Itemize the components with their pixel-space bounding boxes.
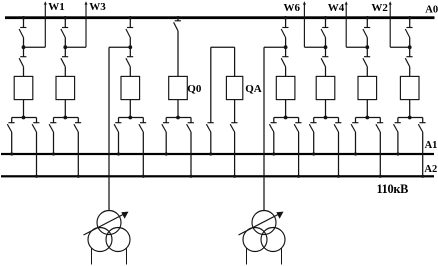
junction on busbar A1, bay 5 [272, 152, 275, 155]
wire bay 8 node to line arrow [390, 46, 410, 48]
wire QA left riser [210, 47, 212, 123]
circuit breaker Q1, bay 1 [14, 76, 33, 99]
disconnector QS14 to busbar A2, bay 1 [32, 123, 39, 132]
wire bay 2 node to line arrow [65, 46, 86, 48]
node on busbar A0, bay 6 [324, 16, 327, 19]
wire bay 8 to busbar A1 [397, 132, 399, 154]
node bay 3 tap junction [128, 45, 132, 49]
disconnector QS84 to busbar A2, bay 8 [418, 123, 425, 132]
wire bay 7 breaker to selector node [366, 100, 368, 118]
node bay 2 tap junction [63, 45, 67, 49]
wire bay 6 to busbar A1 [313, 132, 315, 154]
node bay 2 bus-selector junction [63, 116, 67, 120]
node bay 8 bus-selector junction [408, 116, 412, 120]
wire bay 6 right selector stub [338, 118, 340, 123]
node on busbar A0, bay 8 [408, 16, 411, 19]
junction QA on busbar A1 [209, 152, 212, 155]
wire bay 5 right selector stub [298, 118, 300, 123]
wire QA left to busbar A1 [210, 132, 212, 154]
node bay 6 bus-selector junction [324, 116, 328, 120]
svg-text:A1: A1 [425, 140, 438, 151]
wire bay 2 to busbar A2 [77, 132, 79, 176]
junction on busbar A1, bay 7 [354, 152, 357, 155]
wire QA top horizontal link [211, 46, 235, 48]
wire bay 7 to busbar A2 [379, 132, 381, 176]
junction on busbar A1, bay 6 [312, 152, 315, 155]
junction on busbar A2, bay 5 [297, 175, 300, 178]
wire bay 4 breaker to selector node [177, 100, 179, 118]
node on busbar A0, bay 1 [22, 16, 25, 19]
disconnector QS83 to busbar A1, bay 8 [394, 123, 401, 132]
junction on busbar A2, bay 3 [142, 175, 145, 178]
wire bay 2 left selector stub [53, 118, 55, 123]
wire bay 1 node to second disconnector [23, 47, 25, 57]
node bay 7 bus-selector junction [365, 116, 369, 120]
wire bay 1 bus-selector bar [12, 117, 37, 119]
wire bay 4 bus-selector bar [166, 117, 191, 119]
junction on busbar A2, bay 8 [421, 175, 424, 178]
junction on busbar A2, bay 1 [35, 175, 38, 178]
disconnector QS22, bay 2 [61, 57, 68, 67]
wire bay 7 bus-selector bar [356, 117, 381, 119]
wire bay 7 left selector stub [355, 118, 357, 123]
wire bay 1 to busbar A1 [11, 132, 13, 154]
disconnector QS64 to busbar A2, bay 6 [334, 123, 341, 132]
wire bay 3 bus drop [129, 19, 131, 27]
svg-text:A2: A2 [424, 164, 437, 175]
node bay 6 tap junction [324, 45, 328, 49]
junction on busbar A1, bay 4 [165, 152, 168, 155]
disconnector QS23 to busbar A1, bay 2 [49, 123, 56, 132]
wire bay 2 to busbar A1 [53, 132, 55, 154]
transformer T2 secondary lead left [246, 248, 248, 265]
disconnector QA right (busbar A2 side) [230, 123, 237, 132]
wire bay 3 below first disconnector [129, 38, 131, 48]
disconnector QS13 to busbar A1, bay 1 [7, 123, 14, 132]
wire bay 1 right selector stub [36, 118, 38, 123]
junction on busbar A1, bay 8 [396, 152, 399, 155]
wire bay 3 breaker to selector node [129, 100, 131, 118]
wire bay 1 disconnector to breaker [23, 67, 25, 77]
wire bay 1 breaker to selector node [23, 100, 25, 118]
wire bay 6 left selector stub [313, 118, 315, 123]
circuit breaker Q3, bay 3 [121, 76, 140, 99]
disconnector QS71 (busbar A0 side), bay 7 [363, 28, 370, 38]
wire bay 5 bus drop [285, 19, 287, 27]
transformer T1 secondary lead right [126, 248, 128, 265]
disconnector QS24 to busbar A2, bay 2 [74, 123, 81, 132]
disconnector QS62, bay 6 [321, 57, 328, 67]
wire bay 2 bus-selector bar [54, 117, 79, 119]
disconnector QS21 (busbar A0 side), bay 2 [61, 28, 68, 38]
wire bay 5 left selector stub [273, 118, 275, 123]
outgoing line arrow W4 [345, 1, 348, 47]
wire bay 8 bus-selector bar [398, 117, 423, 119]
wire bay 7 node to line arrow [346, 46, 367, 48]
wire bay 7 below first disconnector [366, 38, 368, 48]
svg-text:W1: W1 [48, 1, 65, 13]
svg-text:W3: W3 [89, 1, 106, 13]
wire bay 3 right selector stub [142, 118, 144, 123]
wire bay 6 below first disconnector [325, 38, 327, 48]
disconnector QS51 (busbar A0 side), bay 5 [281, 28, 288, 38]
wire bay 8 right selector stub [422, 118, 424, 123]
wire bay 3 node to transformer feeder [109, 46, 130, 48]
circuit breaker QA (bus coupler) [226, 76, 242, 99]
disconnector QS33 to busbar A1, bay 3 [114, 123, 121, 132]
wire bay 5 node to transformer feeder [264, 46, 286, 48]
wire bay 3 to busbar A2 [142, 132, 144, 176]
wire bay 3 bus-selector bar [119, 117, 144, 119]
disconnector QS74 to busbar A2, bay 7 [376, 123, 383, 132]
wire bay 2 below first disconnector [64, 38, 66, 48]
wire bay 7 to busbar A1 [355, 132, 357, 154]
wire bay 8 below first disconnector [409, 38, 411, 48]
node bay 7 tap junction [365, 45, 369, 49]
disconnector QS32, bay 3 [126, 57, 133, 67]
wire bay 1 node to line arrow [24, 46, 46, 48]
disconnector QS43 to busbar A1, bay 4 [162, 123, 169, 132]
wire QA breaker to disconnector [234, 100, 236, 123]
wire bay 3 disconnector to breaker [129, 67, 131, 77]
busbar A1 [1, 153, 434, 155]
junction on busbar A2, bay 2 [77, 175, 80, 178]
node bay 5 bus-selector junction [284, 116, 288, 120]
wire bay 8 to busbar A2 [422, 132, 424, 176]
disconnector QS63 to busbar A1, bay 6 [309, 123, 316, 132]
junction on busbar A1, bay 2 [52, 152, 55, 155]
disconnector QS31 (busbar A0 side), bay 3 [126, 28, 133, 38]
wire bay 1 to busbar A2 [36, 132, 38, 176]
wire bay 4 to busbar A1 [165, 132, 167, 154]
node on busbar A0, bay 4 [176, 16, 179, 19]
wire bay 4 left selector stub [165, 118, 167, 123]
svg-text:A0: A0 [425, 5, 438, 16]
disconnector QS44 to busbar A2, bay 4 [187, 123, 194, 132]
wire bay 6 node to line arrow [304, 46, 325, 48]
junction on busbar A2, bay 6 [337, 175, 340, 178]
wire bay 8 breaker to selector node [409, 100, 411, 118]
wire bay 7 right selector stub [379, 118, 381, 123]
node on busbar A0, bay 5 [284, 16, 287, 19]
wire bay 8 left selector stub [397, 118, 399, 123]
disconnector QS53 to busbar A1, bay 5 [269, 123, 276, 132]
node bay 1 bus-selector junction [22, 116, 26, 120]
outgoing line arrow W3 [85, 1, 88, 47]
wire bay 7 bus drop [366, 19, 368, 27]
wire bay 5 bus-selector bar [274, 117, 299, 119]
node bay 5 tap junction [284, 45, 288, 49]
busbar A2 [1, 175, 434, 177]
transformer T1 (three-winding with tap-changer arrow) [84, 211, 131, 252]
circuit breaker Q7, bay 7 [358, 76, 377, 99]
wire bay 3 node to second disconnector [129, 47, 131, 57]
wire transformer feeder drop, bay 3 [108, 47, 110, 210]
wire bay 4 to busbar A2 [190, 132, 192, 176]
wire QA right drop to breaker [234, 47, 236, 76]
svg-text:W6: W6 [284, 2, 301, 14]
junction on busbar A2, bay 4 [189, 175, 192, 178]
disconnector QS12, bay 1 [19, 57, 26, 67]
wire bay 1 left selector stub [11, 118, 13, 123]
disconnector QS11 (busbar A0 side), bay 1 [19, 28, 26, 38]
wire bay 2 right selector stub [77, 118, 79, 123]
junction on busbar A1, bay 3 [117, 152, 120, 155]
svg-text:W4: W4 [328, 2, 345, 14]
svg-text:W2: W2 [371, 2, 388, 14]
busbar A0 (110kV main bus) [5, 16, 435, 19]
node on busbar A0, bay 3 [129, 16, 132, 19]
disconnector QA left (busbar A1 side) [206, 123, 213, 132]
wire bay 5 to busbar A1 [273, 132, 275, 154]
circuit breaker Q8, bay 8 [400, 76, 419, 99]
disconnector QS72, bay 7 [363, 57, 370, 67]
disconnector QS81 (busbar A0 side), bay 8 [405, 28, 412, 38]
node on busbar A0, bay 2 [64, 16, 67, 19]
wire bay 5 disconnector to breaker [285, 67, 287, 77]
transformer T1 secondary lead left [91, 248, 93, 265]
outgoing line arrow W1 [44, 1, 47, 47]
svg-text:Q0: Q0 [187, 83, 202, 95]
wire bay 1 below first disconnector [23, 38, 25, 48]
wire bay 4 bus drop [177, 19, 179, 21]
disconnector QS52, bay 5 [281, 57, 288, 67]
disconnector QS73 to busbar A1, bay 7 [351, 123, 358, 132]
wire bay 3 to busbar A1 [118, 132, 120, 154]
wire bay 4 below first disconnector [177, 31, 179, 77]
circuit breaker Q5, bay 5 [276, 76, 295, 99]
node bay 1 tap junction [22, 45, 26, 49]
node bay 8 tap junction [408, 45, 412, 49]
node on busbar A0, bay 7 [366, 16, 369, 19]
transformer T2 (three-winding with tap-changer arrow) [239, 211, 286, 252]
wire QA right to busbar A2 [234, 132, 236, 176]
node bay 3 bus-selector junction [128, 116, 132, 120]
junction on busbar A2, bay 7 [379, 175, 382, 178]
circuit breaker Q2, bay 2 [56, 76, 75, 99]
wire bay 6 breaker to selector node [325, 100, 327, 118]
wire transformer feeder drop, bay 5 [263, 47, 265, 210]
junction QA on busbar A2 [233, 175, 236, 178]
wire bay 8 bus drop [409, 19, 411, 27]
wire bay 5 below first disconnector [285, 38, 287, 48]
wire bay 2 disconnector to breaker [64, 67, 66, 77]
disconnector QS82, bay 8 [405, 57, 412, 67]
wire bay 4 right selector stub [190, 118, 192, 123]
disconnector QS41 (busbar A0 side), bay 4 [174, 21, 181, 31]
wire bay 3 left selector stub [118, 118, 120, 123]
transformer T2 secondary lead right [281, 248, 283, 265]
disconnector QS34 to busbar A2, bay 3 [139, 123, 146, 132]
circuit breaker Q0, bay 4 [169, 76, 188, 99]
wire bay 6 bus drop [325, 19, 327, 27]
node bay 4 bus-selector junction [176, 116, 180, 120]
circuit breaker Q6, bay 6 [316, 76, 335, 99]
svg-text:110кВ: 110кВ [377, 182, 409, 196]
wire bay 5 to busbar A2 [298, 132, 300, 176]
wire bay 2 node to second disconnector [64, 47, 66, 57]
wire bay 6 bus-selector bar [314, 117, 339, 119]
wire bay 5 node to second disconnector [285, 47, 287, 57]
disconnector QS61 (busbar A0 side), bay 6 [321, 28, 328, 38]
wire bay 7 node to second disconnector [366, 47, 368, 57]
wire bay 6 node to second disconnector [325, 47, 327, 57]
wire bay 8 node to second disconnector [409, 47, 411, 57]
outgoing line arrow W6 [303, 1, 306, 47]
wire bay 2 bus drop [64, 19, 66, 27]
svg-text:QA: QA [245, 83, 262, 95]
junction on busbar A1, bay 1 [10, 152, 13, 155]
wire bay 5 breaker to selector node [285, 100, 287, 118]
wire bay 6 to busbar A2 [338, 132, 340, 176]
outgoing line arrow W2 [389, 1, 392, 47]
wire bay 7 disconnector to breaker [366, 67, 368, 77]
wire bay 6 disconnector to breaker [325, 67, 327, 77]
wire bay 2 breaker to selector node [64, 100, 66, 118]
disconnector QS54 to busbar A2, bay 5 [294, 123, 301, 132]
wire bay 1 bus drop [23, 19, 25, 27]
wire bay 8 disconnector to breaker [409, 67, 411, 77]
